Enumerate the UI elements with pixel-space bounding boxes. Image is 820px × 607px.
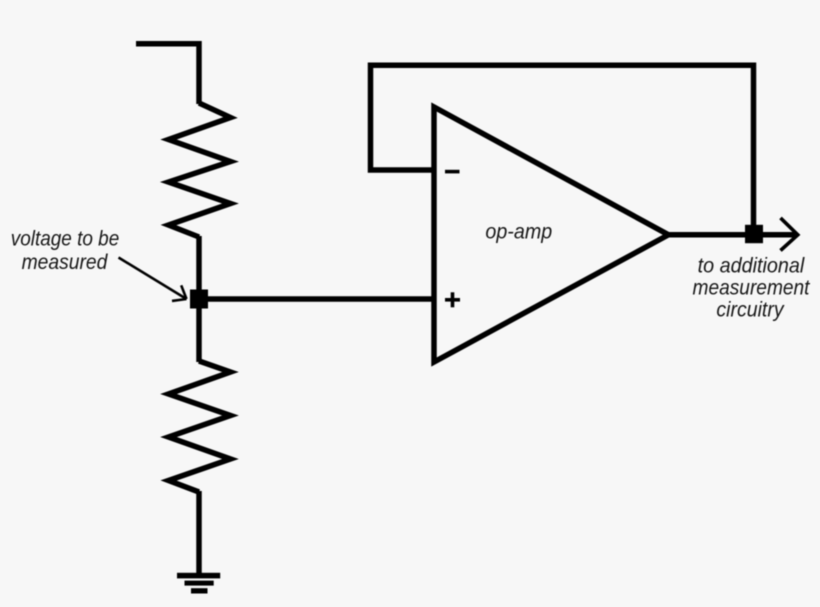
ground (177, 573, 220, 594)
wire (371, 65, 754, 235)
svg-text:circuitry: circuitry (716, 299, 785, 322)
resistor R2 (169, 361, 231, 492)
wire (199, 296, 434, 302)
node: voltage divider tap (190, 290, 208, 309)
label: voltage to be measured (11, 228, 120, 275)
svg-text:measurement: measurement (693, 276, 811, 299)
svg-text:voltage to be: voltage to be (11, 228, 120, 251)
arrow: label pointer (119, 258, 187, 301)
wire (666, 232, 795, 238)
wire (196, 236, 202, 292)
resistor R1 (169, 103, 231, 237)
label: to additional measurement circuitry (693, 254, 811, 321)
wire (136, 44, 199, 104)
svg-text:to additional: to additional (698, 254, 806, 277)
svg-text:measured: measured (22, 251, 109, 274)
svg-text:op-amp: op-amp (485, 221, 552, 244)
wire (196, 491, 202, 574)
wire (196, 306, 202, 362)
node: output junction (745, 225, 763, 243)
op-amp U1 (434, 107, 669, 362)
arrow: output direction (781, 218, 798, 251)
